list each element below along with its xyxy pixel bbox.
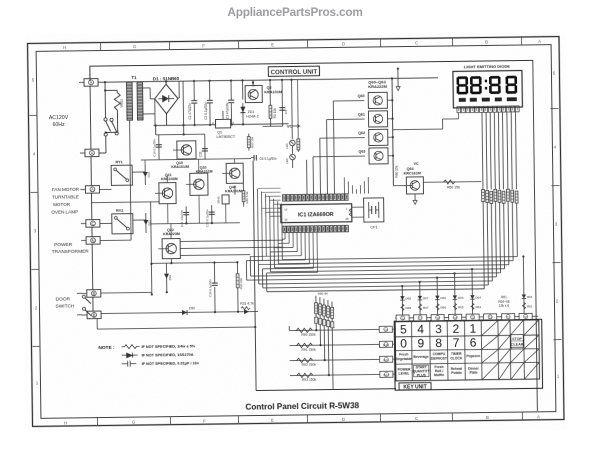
transistor Q63 [358,148,393,164]
wire door switch net [96,262,258,330]
diode D91 [244,309,249,314]
key stop clear [511,335,524,348]
wire rail stub VA [396,68,400,91]
transistor Q62 [358,129,393,145]
transistor Q22 KRA223M [158,228,180,259]
diode D21 [143,213,151,233]
zener ZD1 [240,106,258,118]
transistor Q20 KRA101M [186,166,213,196]
wire Q6x base lines [306,101,366,195]
capacitor C4 [279,79,288,127]
transistor Q60 [358,92,393,108]
varistor VRS1 [104,89,124,110]
IC IC1 bottom pin row [283,225,349,232]
label VC Q64 [413,162,420,205]
IC IC1 IZA669OR top pin row [283,194,349,201]
keypad hatched cells [482,320,539,379]
bridge rectifier D1 [155,84,179,114]
resistor R60 156 [423,180,481,190]
IC IC1 IZA669OR body [281,204,352,223]
wire vcc rail [126,77,439,135]
LED colon [485,80,487,90]
LED annunciator bars [459,97,517,102]
wire IC bottom staircase [246,232,318,292]
keypad grid [395,320,539,381]
wire Q6x collector bus [391,78,395,185]
capacitor C21 [180,206,190,227]
wire mid rails [145,159,240,239]
wire AC input [98,81,127,153]
note block [98,344,199,367]
wire horizontal bus bundle [246,257,517,292]
resistor R60 15k [395,165,399,177]
connectors G0-G7 row [395,313,538,321]
LED digit 1 [456,76,468,94]
regulator Q1 LM7805CT [212,111,236,139]
wire LED left feed [392,113,458,130]
label power transformer [52,242,90,255]
diodes D64-D68 and resistors R64-R68 key columns [400,268,482,315]
wire IC left connections [180,208,284,255]
label door switch [55,296,75,309]
transformer T1 [98,75,157,241]
LED pin row [457,106,519,113]
transistor Q40 KRA101M [222,163,243,193]
LED digit 4 [505,76,517,94]
terminal A2 [80,186,99,194]
resistor stack R80-R84 150k [314,292,334,390]
capacitor C11 [198,142,208,159]
keypad function keys row4 [398,364,480,377]
resonator CF1 [352,198,384,230]
transistor Q21 KRC243M [155,173,178,204]
wire left rail [91,157,93,311]
svg-text:AppliancePartsPros.com: AppliancePartsPros.com [227,5,362,19]
transistor Q61 [358,111,393,127]
resistor R30 10k [236,261,244,312]
capacitor C3 [225,100,234,119]
LED digit 3 [489,76,501,94]
terminal A1 [80,149,99,157]
resistor R20 10k [247,134,254,151]
relay RY1 [111,160,132,185]
keypad function keys row3 [396,352,480,362]
diode D61 resistor R61 column [521,255,533,313]
wire secondary rails [91,132,253,296]
transistor Q10 KRA101M [171,141,196,169]
transistor Q2 KRA101M [245,80,282,103]
border zone tick marks [29,37,563,427]
diode D90 [182,306,195,315]
terminal CD [81,220,100,228]
LED indicators LED1 LED2 [284,80,295,168]
transistor Q64 KRC161M [393,167,423,194]
resistor R40 5.6k [242,184,249,207]
terminal B2 [82,311,101,319]
diode D92 [164,263,172,293]
terminal N [81,237,100,245]
wire IC top stubs [344,177,368,194]
key unit label box [399,383,431,391]
wire LED column bundle with resistors R70-R78 [481,112,520,289]
keypad digit keys [400,321,477,350]
relay RY2 [112,209,133,234]
connectors G9-G12 column [379,326,396,377]
wire left bundle verticals [257,188,282,265]
scan grain overlay [25,33,567,430]
label AC120V 60Hz [49,115,69,128]
label R61 R64-68 15k x 6 [498,295,510,308]
wire Q82 net [170,259,172,265]
wire bus to bottom rail [253,159,396,391]
control unit label box [268,66,319,76]
capacitor C20 [205,205,215,227]
keypad key unit outer frame [394,319,542,390]
resistor R1 15k [269,79,278,126]
terminal A0 [79,79,99,150]
capacitor C6 [251,155,277,161]
label Q60-Q63 KRA222M [368,79,387,89]
resistors R90-R93 150k rows [289,325,380,382]
resistor R2 [296,80,300,152]
terminal B1 [82,290,101,298]
capacitor C10 [152,135,162,160]
wire relay connections [99,172,146,224]
capacitor C2 [204,100,213,119]
label VC arrow [263,123,300,128]
capacitor C1 [188,101,198,120]
resistor R31 4.7k [240,302,254,310]
switch SW1 contacts [104,118,118,136]
sheet outer border [28,37,564,427]
LED digit 2 [470,76,482,94]
resistor SR40 [217,195,230,204]
LED display module [453,71,522,108]
label fan motor turntable motor oven lamp [51,187,80,215]
wire top rail [90,60,533,81]
capacitor C30 [208,261,218,312]
wire right content frame [533,60,538,411]
door switch S10 [77,293,91,316]
diode D20 [143,165,151,185]
sheet inner border [36,45,556,419]
